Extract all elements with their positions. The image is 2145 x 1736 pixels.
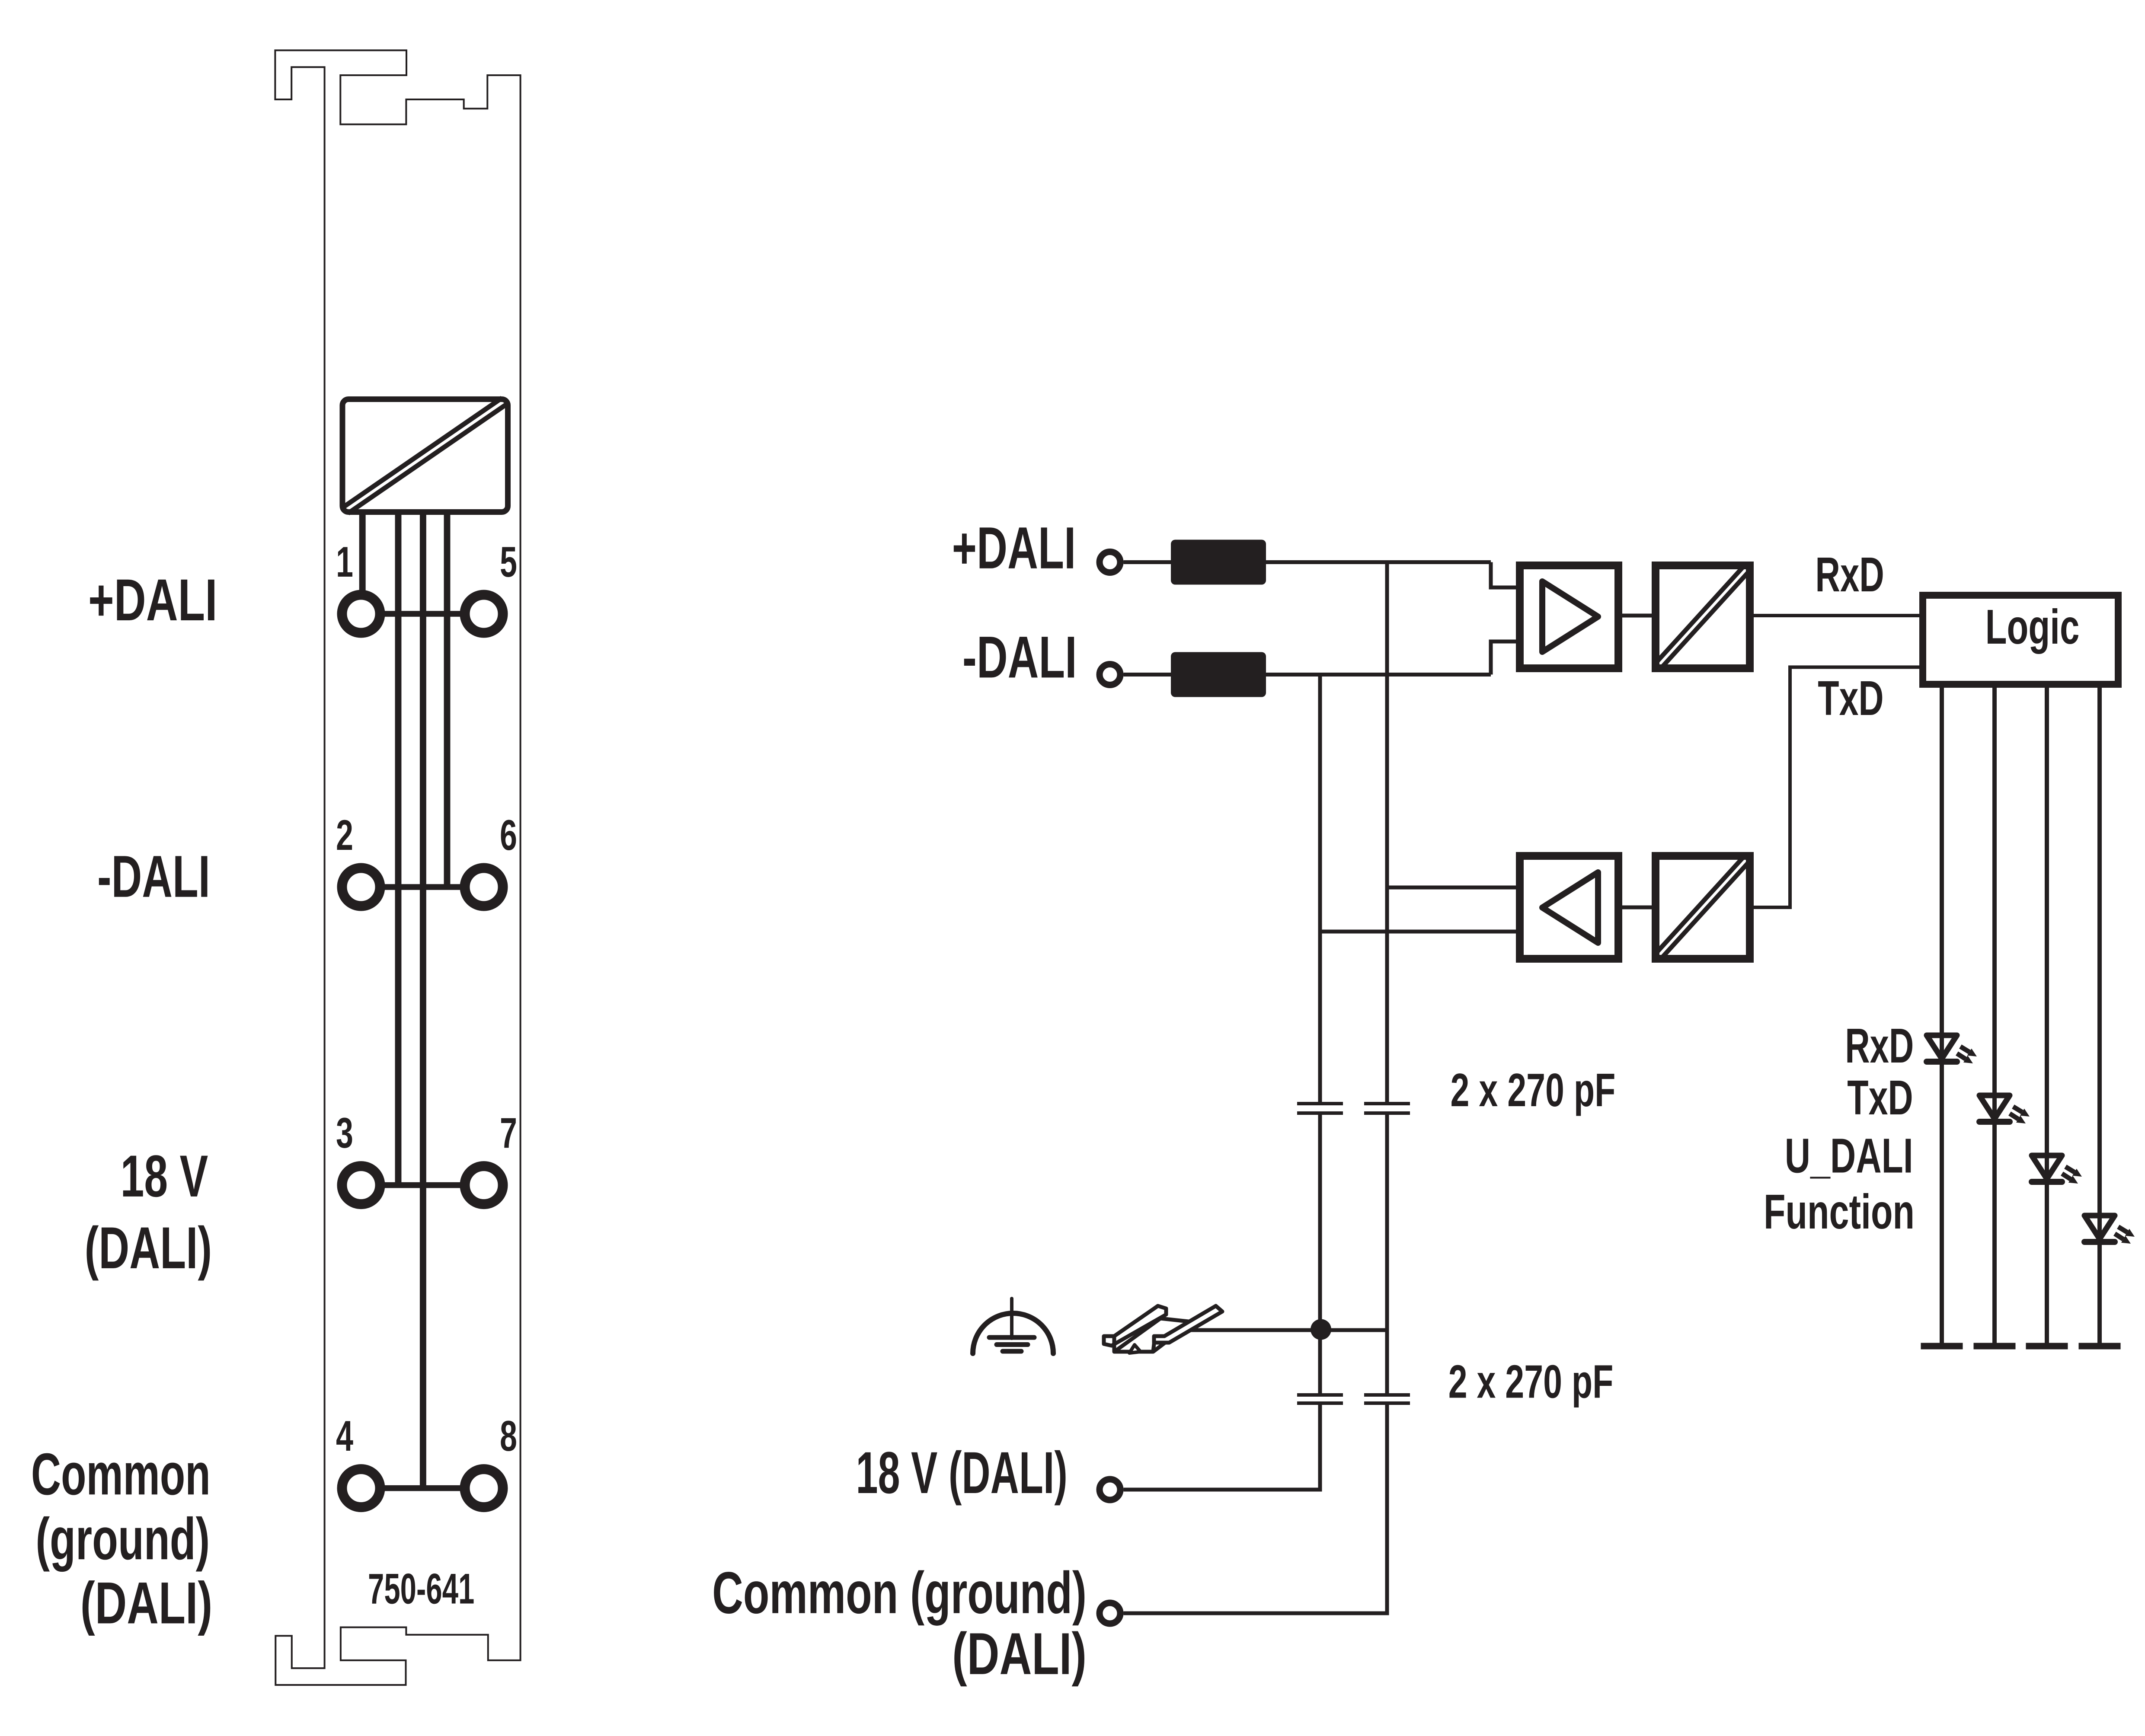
svg-text:+DALI: +DALI [952,515,1076,581]
pin 4 contact [342,1469,380,1507]
wire vertical net A segment 2 [1385,1113,1389,1395]
wire vertical net B (x=3053) segment 1 [1318,673,1322,1104]
LED terminator bar 1 [1921,1343,1963,1350]
bus wire to pin 1 [359,512,366,592]
receive amplifier U1 triangle [1542,581,1598,652]
wire amp U3 to isolator U4 [1618,906,1656,909]
svg-text:2 x 270 pF: 2 x 270 pF [1451,1064,1616,1117]
LED D1 (RxD) [1927,1035,1977,1063]
svg-text:5: 5 [500,538,517,586]
module 750-641 outline [275,50,520,1685]
pin 8 contact [465,1469,503,1507]
svg-text:750-641: 750-641 [368,1565,474,1613]
capacitor C1 plates [1297,1102,1343,1105]
receive amplifier U1 box [1520,565,1618,668]
wire +DALI terminal to filter [1124,560,1173,564]
bus wire to pins 4-8 [420,512,426,1488]
earth symbol arc [973,1313,1053,1353]
svg-text:RxD: RxD [1845,1018,1914,1073]
svg-text:18 V (DALI): 18 V (DALI) [856,1440,1068,1506]
svg-text:(ground): (ground) [35,1506,210,1572]
filter FL2 (-DALI) [1171,652,1266,697]
svg-text:Function: Function [1764,1184,1915,1239]
isolator U4 box [1656,856,1750,959]
wire -DALI terminal to filter [1124,673,1173,677]
terminal +DALI [1100,552,1120,573]
isolator U4 diagonal [1662,862,1749,957]
svg-text:7: 7 [500,1109,517,1157]
svg-text:3: 3 [336,1109,353,1157]
svg-text:6: 6 [500,811,517,859]
wire pin4-pin8 [380,1485,464,1491]
wire filter to node A [1266,560,1491,564]
terminal -DALI [1100,664,1120,685]
wire vertical net B segment 2 [1318,1113,1322,1395]
svg-text:TxD: TxD [1818,671,1883,725]
earth symbol bar 3 [1003,1349,1021,1354]
LED D3 (U_DALI) [2032,1155,2082,1184]
bus wire to pins 2-6 [444,512,451,887]
svg-text:(DALI): (DALI) [952,1621,1087,1687]
wire amp U1 to isolator U2 [1618,614,1656,618]
svg-text:U_DALI: U_DALI [1785,1129,1913,1183]
pin 2 contact [342,868,380,906]
earth symbol stem [1010,1299,1013,1338]
wire ground rail to verticals [1187,1328,1387,1332]
isolator U2 diagonal [1662,572,1749,667]
wire transmit amp lower input [1320,930,1522,934]
svg-text:4: 4 [336,1412,353,1460]
LED D4 (Function) [2084,1216,2135,1244]
wire filter to node B [1266,673,1491,677]
earth symbol bar 2 [997,1342,1028,1347]
svg-text:(DALI): (DALI) [80,1570,213,1636]
pin 1 contact [342,595,380,633]
terminal Common (ground) [1100,1603,1120,1624]
transmit amplifier U3 box [1520,856,1618,959]
svg-text:2 x 270 pF: 2 x 270 pF [1448,1355,1614,1408]
svg-text:TxD: TxD [1847,1070,1913,1125]
svg-text:-DALI: -DALI [97,844,210,910]
svg-text:(DALI): (DALI) [85,1215,212,1281]
bus wire to pins 3-7 [395,512,402,1185]
wire TxD [1750,667,1923,907]
svg-text:1: 1 [336,538,353,586]
LED D2 (TxD) [1979,1095,2030,1123]
svg-text:Logic: Logic [1985,600,2080,654]
svg-text:Common: Common [31,1441,211,1507]
svg-text:2: 2 [336,811,353,859]
svg-text:8: 8 [500,1412,517,1460]
capacitor C3 plates [1297,1393,1343,1397]
LED line 3 [2045,684,2049,1346]
DIN rail icon [1104,1306,1222,1353]
LED line 2 [1992,684,1997,1346]
wire step into receive amp lower [1491,641,1522,675]
terminal 18 V (DALI) [1100,1479,1120,1500]
pin 6 contact [465,868,503,906]
wire transmit amp upper input [1388,886,1522,890]
capacitor C4 plates [1364,1393,1410,1397]
pin 5 contact [465,595,503,633]
pin 3 contact [342,1166,380,1204]
transmit amplifier U3 triangle [1542,872,1598,943]
transformer T1 diagonal [348,405,506,514]
wire pin1-pin5 [380,611,464,617]
LED terminator bar 4 [2079,1343,2121,1350]
wire vertical net B segment 3 and to 18V terminal [1124,1403,1320,1490]
svg-text:18 V: 18 V [121,1143,208,1209]
LED terminator bar 3 [2026,1343,2068,1350]
transformer T1 (isolation block) [342,399,508,512]
wire pin2-pin6 [380,884,464,890]
LED terminator bar 2 [1974,1343,2016,1350]
LED line 4 [2097,684,2102,1346]
wire RxD [1750,614,1923,617]
wire vertical net A segment 3 and to Common terminal [1124,1403,1387,1613]
logic block U5 [1923,595,2118,684]
junction dot ground node [1311,1319,1331,1340]
capacitor C2 plates [1364,1102,1410,1105]
svg-text:-DALI: -DALI [962,624,1077,690]
LED line 1 [1940,684,1944,1346]
wire vertical net A (x=3208) segment 1 [1385,560,1389,1104]
isolator U2 box [1656,565,1750,668]
wire pin3-pin7 [380,1182,464,1188]
svg-text:Common (ground): Common (ground) [712,1560,1087,1626]
svg-text:+DALI: +DALI [88,567,217,633]
wire step into receive amp upper [1491,562,1522,588]
earth symbol bar 1 [989,1335,1034,1340]
filter FL1 (+DALI) [1171,540,1266,585]
pin 7 contact [465,1166,503,1204]
svg-text:RxD: RxD [1815,547,1884,602]
